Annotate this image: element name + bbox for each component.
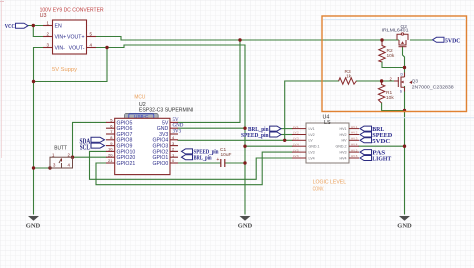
net flag SDA: [80, 137, 105, 145]
junction BUTT pin3: [48, 166, 51, 169]
power flag 5VDC top: [433, 37, 461, 44]
svg-text:21: 21: [108, 158, 113, 163]
level converter U4: [292, 115, 359, 193]
switch BUTT: [50, 145, 73, 168]
svg-text:GND: GND: [397, 223, 412, 230]
svg-text:GND.1: GND.1: [309, 145, 320, 149]
sheet border: [1, 0, 3, 158]
svg-text:5VDC: 5VDC: [372, 138, 390, 145]
svg-text:SPEED_pin: SPEED_pin: [241, 133, 269, 139]
svg-text:+: +: [216, 157, 219, 163]
left pin names: [117, 120, 136, 167]
left pin stubs: [106, 122, 115, 163]
right pin numbers: [172, 135, 175, 163]
wire R1 bottom to source rail: [382, 103, 405, 111]
net flag SPEED_pin at U4: [241, 132, 281, 139]
svg-text:HV.2: HV.2: [351, 131, 358, 135]
wire Q3 source down to GND: [404, 87, 406, 215]
net flag 5VDC at U4: [360, 138, 390, 145]
ground GND right: [397, 216, 412, 230]
svg-text:HV.1: HV.1: [351, 125, 358, 129]
inner pin names: [309, 127, 320, 160]
wire VOUT- rail with jog to GND vertical: [96, 45, 245, 48]
highlight box power circuit: [322, 16, 467, 112]
wire GPIO4 row to U4 LV: [178, 139, 292, 141]
svg-text:HV: HV: [342, 139, 348, 143]
svg-text:LV.3: LV.3: [293, 137, 299, 141]
svg-text:BRL_pin: BRL_pin: [194, 155, 213, 161]
svg-text:10k: 10k: [387, 53, 395, 59]
svg-text:10k: 10k: [386, 95, 394, 101]
wire VCC branch down to VIN+: [33, 26, 43, 37]
svg-text:LIGHT: LIGHT: [372, 156, 392, 163]
svg-text:HV3: HV3: [340, 151, 347, 155]
right pin stubs: [349, 129, 359, 158]
net flag LIGHT: [360, 156, 392, 163]
svg-text:ESP32-C3 SUPERMINI: ESP32-C3 SUPERMINI: [139, 107, 194, 113]
svg-text:HV.6: HV.6: [351, 154, 358, 158]
svg-text:Q3: Q3: [412, 78, 419, 84]
right pin stubs: [170, 122, 178, 163]
svg-text:HV1: HV1: [340, 127, 347, 131]
wire VIN- down left rail to GND: [34, 48, 44, 215]
wire BRL_pin flag to U4 LV1: [281, 128, 292, 130]
svg-text:SCL: SCL: [80, 145, 90, 152]
wire GPIO10 wrap to U4 LV4: [90, 151, 293, 179]
MCU U2 ESP32-C3 SUPERMINI: [106, 95, 193, 175]
junction left GND rail: [32, 166, 35, 169]
converter U3: [40, 7, 104, 73]
tiny pad names left: [293, 125, 299, 158]
svg-text:LOGIC LEVEL: LOGIC LEVEL: [313, 180, 347, 186]
wire GND vertical x=245: [244, 45, 246, 214]
svg-text:10uF: 10uF: [221, 152, 232, 158]
resistor R3: [339, 69, 357, 84]
tiny pad names right: [351, 125, 358, 158]
net flag BRL_pin at U4: [248, 126, 281, 133]
svg-text:LV4: LV4: [309, 156, 315, 160]
svg-text:2N7000_C232838: 2N7000_C232838: [412, 84, 454, 90]
svg-text:VIN-: VIN-: [55, 46, 66, 52]
svg-text:GND: GND: [26, 223, 41, 230]
wire R2 top to 5V rail: [381, 40, 383, 42]
junction VCC branch: [32, 24, 35, 27]
svg-text:GND: GND: [173, 124, 184, 129]
resistor R1: [378, 85, 394, 104]
svg-text:20: 20: [108, 152, 113, 157]
wire Q2 gate / Q3 drain node: [403, 47, 405, 77]
svg-text:LV: LV: [309, 139, 314, 143]
svg-text:10: 10: [108, 147, 113, 152]
power flag VCC: [5, 23, 28, 30]
net flag PAS: [360, 150, 386, 157]
wire 5V rail into orange box to Q2 source: [240, 39, 399, 41]
net flag SPEED: [360, 132, 393, 139]
wire GPIO5 to BUTT pin2 vertical: [73, 122, 107, 157]
wire 5V vertical x=240 to MCU 5V pin: [178, 40, 240, 122]
svg-text:LV.2: LV.2: [293, 131, 299, 135]
svg-text:IRLML6401: IRLML6401: [382, 28, 409, 34]
net flag SPEED_pin at GPIO2: [182, 149, 220, 156]
wire SPEED_pin flag to U4 LV2: [281, 134, 292, 136]
svg-text:LV1: LV1: [309, 127, 315, 131]
svg-text:LV.5: LV.5: [293, 148, 299, 152]
capacitor C1: [216, 147, 231, 167]
svg-text:LV3: LV3: [309, 151, 315, 155]
wire VOUT- tie loop to VIN-: [34, 48, 108, 82]
junction C1 right: [243, 161, 246, 164]
junction 5V rail: [238, 38, 241, 41]
svg-text:LS: LS: [324, 120, 331, 126]
svg-text:VOUT+: VOUT+: [67, 35, 84, 41]
svg-text:3V3: 3V3: [173, 129, 182, 134]
junction BUTT pin2: [71, 156, 74, 159]
svg-text:100V EY9 DC CONVERTER: 100V EY9 DC CONVERTER: [40, 7, 104, 13]
svg-text:U3: U3: [40, 13, 47, 19]
svg-text:5VDC: 5VDC: [445, 39, 461, 45]
svg-text:LV.6: LV.6: [293, 154, 299, 158]
resistor R2: [379, 46, 395, 63]
junction R3 feed: [283, 139, 286, 142]
svg-text:VCC: VCC: [5, 24, 15, 30]
wire R3 feed vertical from GPIO4 net: [285, 81, 339, 140]
wire GPIO0 to C1 to GND vertical: [178, 162, 245, 164]
svg-text:BUTT: BUTT: [54, 145, 67, 151]
wire VOUT+ to 5V rail with jog: [96, 37, 240, 41]
junction Q3 gate node: [380, 79, 383, 82]
wire VCC to U3 EN: [28, 25, 43, 27]
wire GPIO21 wrap to U4 LV3: [96, 152, 292, 185]
net flag BRL: [360, 126, 384, 133]
svg-text:1k: 1k: [346, 74, 352, 80]
ground GND left: [26, 216, 41, 230]
wire R1 top to gate wire: [381, 81, 383, 85]
junction R2 top: [380, 38, 383, 41]
svg-text:HV4: HV4: [340, 156, 347, 160]
right pin names: [152, 120, 168, 167]
svg-text:HV.3: HV.3: [351, 137, 358, 141]
junction Q2 gate node: [403, 66, 406, 69]
svg-text:EN: EN: [55, 24, 62, 30]
svg-text:HV.4: HV.4: [351, 142, 358, 146]
wire Q2 drain to 5VDC flag: [411, 39, 433, 41]
svg-text:GPIO21: GPIO21: [117, 161, 136, 167]
svg-text:HV.5: HV.5: [351, 148, 358, 152]
svg-text:5V Suppy: 5V Suppy: [52, 67, 77, 73]
junction MCU GND: [243, 127, 246, 130]
transistor Q3 2N7000: [390, 73, 454, 94]
svg-text:GPIO0: GPIO0: [152, 161, 168, 167]
svg-text:LV.1: LV.1: [293, 125, 299, 129]
svg-text:5V: 5V: [173, 118, 180, 123]
wire R2 bottom to gate node: [382, 62, 405, 68]
junction VIN- tie: [32, 80, 35, 83]
svg-text:HV2: HV2: [340, 133, 347, 137]
ground GND middle: [238, 216, 253, 230]
junction VOUT- tie: [105, 46, 108, 49]
svg-text:VOUT-: VOUT-: [69, 46, 85, 52]
wire U4 GND.1 from GND vertical: [245, 145, 292, 147]
transistor Q2 IRLML6401: [382, 24, 409, 47]
svg-text:GND.2: GND.2: [336, 145, 347, 149]
svg-text:CONV.: CONV.: [313, 186, 325, 192]
net flag BRL_pin at GPIO1: [182, 155, 213, 162]
svg-text:LV2: LV2: [309, 133, 315, 137]
wire BUTT pin2 to GPIO20: [73, 156, 107, 158]
left pin stubs: [292, 129, 306, 158]
wire R3 to Q3 gate: [356, 80, 394, 82]
wire BUTT pin3 to left GND rail: [34, 167, 51, 169]
wire MCU GND pin to GND vertical: [178, 127, 245, 129]
left pin numbers: [108, 118, 113, 164]
wire U4 GND.2 to right GND vertical: [359, 145, 405, 147]
svg-text:GND: GND: [238, 223, 253, 230]
USB-C tab: [125, 113, 159, 119]
svg-text:LV.4: LV.4: [293, 142, 299, 146]
junction GND.2: [403, 145, 406, 148]
svg-text:MCU: MCU: [134, 95, 145, 101]
highlight artifact lines: [323, 19, 466, 21]
junction GND.1: [243, 145, 246, 148]
switch lever: [59, 159, 62, 168]
svg-text:VIN+: VIN+: [55, 35, 67, 41]
junction R1 bottom: [403, 109, 406, 112]
net flag SCL: [80, 143, 105, 151]
